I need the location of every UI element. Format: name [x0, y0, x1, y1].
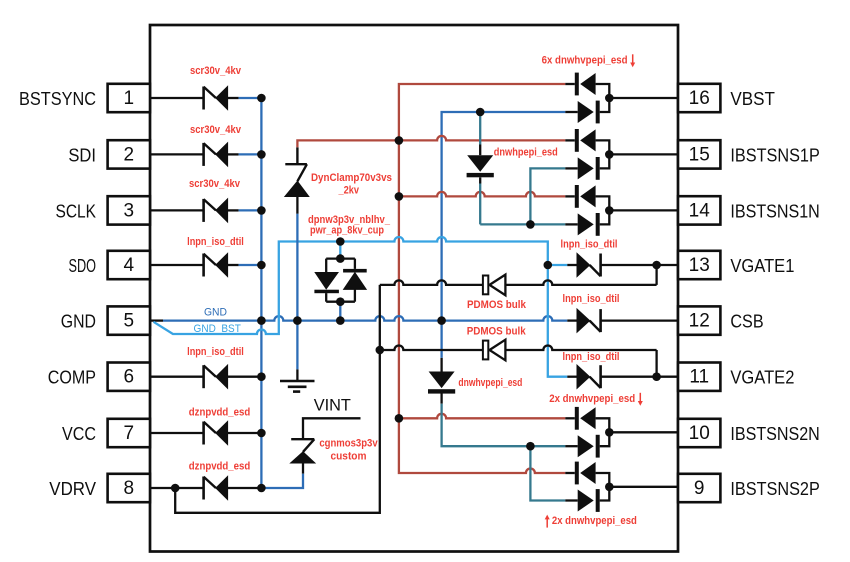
svg-text:VDRV: VDRV: [49, 478, 96, 499]
pin 14 box: [678, 196, 720, 224]
wire diode 4 to bus: [228, 264, 239, 266]
svg-text:scr30v_4kv: scr30v_4kv: [189, 178, 241, 190]
svg-text:8: 8: [124, 478, 135, 499]
wire diode 6 to bus: [228, 376, 262, 378]
wire diode 2 to bus: [228, 153, 239, 155]
svg-text:lnpn_iso_dtil: lnpn_iso_dtil: [561, 239, 618, 251]
wire teal dnwhvpepi_esd lower net: [440, 358, 442, 372]
diode down 2x dnwhvpepi_esd pair IBSTSNS2N: [578, 435, 600, 458]
pin 3 box: [108, 196, 150, 224]
svg-text:PDMOS bulk: PDMOS bulk: [467, 325, 527, 337]
svg-text:custom: custom: [331, 451, 367, 463]
diode pair dpnw3p3v_nblhv_pwr_ap_8kv_cup: [314, 259, 366, 302]
wire pin 6 to diode: [150, 376, 204, 378]
pin 11 box: [678, 363, 720, 391]
junction dots: [257, 94, 266, 103]
svg-text:_2kv: _2kv: [338, 185, 360, 197]
ground symbol: [280, 381, 315, 392]
wire GND from pin 5 black stub: [150, 319, 163, 321]
lead black wires 6x dnwhvpepi_esd pair IBSTSNS1N: [565, 195, 575, 197]
svg-text:14: 14: [689, 200, 711, 221]
svg-text:9: 9: [694, 478, 705, 499]
svg-text:GND_BST: GND_BST: [194, 323, 241, 335]
svg-text:3: 3: [124, 200, 135, 221]
svg-text:10: 10: [689, 423, 710, 444]
wire black PDMOS bulk row lower: [380, 346, 483, 351]
wire diode 7 to bus: [228, 432, 262, 434]
svg-text:dznpvdd_esd: dznpvdd_esd: [189, 460, 251, 472]
pin 12 box: [678, 306, 720, 334]
wire pin 3 to diode: [150, 209, 204, 211]
svg-text:13: 13: [689, 255, 710, 276]
wire VINT net label stub: [303, 418, 361, 439]
diode dnwhvpepi_esd: [428, 372, 455, 394]
svg-text:DynClamp70v3vs: DynClamp70v3vs: [311, 172, 392, 184]
svg-text:GND: GND: [61, 311, 96, 332]
svg-text:CSB: CSB: [730, 311, 763, 332]
arrow down 6x dnwhvpepi_esd: [632, 54, 634, 66]
wire red ESD rail vertical with top and bottom branches: [399, 84, 565, 473]
svg-text:6: 6: [124, 367, 135, 388]
svg-text:VCC: VCC: [62, 423, 96, 444]
svg-text:pwr_ap_8kv_cup: pwr_ap_8kv_cup: [310, 225, 384, 237]
wire black DynClamp top stem: [296, 147, 298, 164]
svg-text:4: 4: [124, 255, 135, 276]
wire black CSB diode lead-in: [567, 319, 577, 321]
diode down 2x dnwhvpepi_esd pair IBSTSNS2P: [578, 489, 600, 512]
wire black VDRV bulk net loop: [175, 285, 380, 513]
wire black PDMOS bulk row upper: [380, 280, 483, 285]
svg-text:lnpn_iso_dtil: lnpn_iso_dtil: [563, 293, 620, 305]
diode down 6x dnwhvpepi_esd pair IBSTSNS1N: [578, 213, 600, 236]
svg-text:IBSTSNS2P: IBSTSNS2P: [730, 478, 819, 499]
diode up 6x dnwhvpepi_esd pair VBST: [575, 73, 596, 96]
wire DynClamp bottom stem to GND and ground symbol: [296, 197, 298, 214]
svg-text:IBSTSNS2N: IBSTSNS2N: [730, 423, 819, 444]
clamp DynClamp70v3vs_2kv: [285, 164, 309, 196]
wire teal dnwhpepi_esd upper net: [479, 112, 481, 145]
svg-text:6x dnwhvpepi_esd: 6x dnwhvpepi_esd: [542, 55, 628, 67]
diode PDMOS bulk lower: [483, 340, 506, 361]
wire diode 8 to bus: [228, 487, 262, 489]
svg-text:2: 2: [124, 144, 135, 165]
svg-text:12: 12: [689, 311, 710, 332]
lead black wires 2x dnwhvpepi_esd pair IBSTSNS2P: [565, 472, 575, 474]
svg-text:SCLK: SCLK: [56, 200, 97, 221]
diode PDMOS bulk upper: [483, 275, 506, 296]
svg-text:VGATE2: VGATE2: [730, 367, 794, 388]
wire blue GND bus vertical left: [260, 98, 262, 488]
lead black wires 6x dnwhvpepi_esd pair VBST: [565, 83, 575, 85]
diode dznpvdd_esd pin 7: [204, 421, 228, 444]
pin 9 box: [678, 474, 720, 502]
diode up 6x dnwhvpepi_esd pair IBSTSNS1N: [575, 185, 596, 208]
wire cgnmos bottom to VDRV row: [302, 463, 304, 474]
pin 1 box: [108, 84, 150, 112]
diode down 6x dnwhvpepi_esd pair VBST: [578, 101, 600, 124]
wire pin 7 to diode: [150, 432, 204, 434]
svg-text:2x dnwhvpepi_esd: 2x dnwhvpepi_esd: [552, 515, 637, 527]
svg-text:SDO: SDO: [69, 255, 97, 276]
svg-text:2x dnwhvpepi_esd: 2x dnwhvpepi_esd: [549, 393, 635, 405]
diode scr30v_4kv pin 1: [204, 86, 228, 109]
svg-text:scr30v_4kv: scr30v_4kv: [190, 124, 242, 136]
wire light blue stub to dpnw cell top: [339, 242, 341, 259]
svg-text:PDMOS bulk: PDMOS bulk: [467, 299, 527, 311]
wire red branch to 2x stack upper diode d7: [399, 414, 565, 419]
diode up 2x dnwhvpepi_esd pair IBSTSNS2P: [575, 462, 596, 485]
diode scr30v_4kv pin 2: [204, 143, 228, 166]
arrow down 2x dnwhvpepi_esd upper: [639, 393, 641, 405]
wire pin 8 to diode: [150, 487, 204, 489]
svg-text:15: 15: [689, 144, 710, 165]
pin 7 box: [108, 419, 150, 447]
diode scr30v_4kv pin 3: [204, 199, 228, 222]
svg-text:scr30v_4kv: scr30v_4kv: [190, 65, 242, 77]
diode lnpn_iso_dtil VGATE2: [577, 365, 601, 388]
svg-text:7: 7: [124, 423, 135, 444]
wire diode 1 to bus: [228, 97, 239, 99]
svg-text:lnpn_iso_dtil: lnpn_iso_dtil: [187, 346, 244, 358]
svg-text:IBSTSNS1P: IBSTSNS1P: [730, 144, 819, 165]
wire pin 4 to diode: [150, 264, 204, 266]
wire GND blue horizontal to CSB diode: [163, 316, 567, 321]
lead black wires 2x dnwhvpepi_esd pair IBSTSNS2N: [565, 417, 575, 419]
svg-text:1: 1: [124, 88, 135, 109]
svg-text:cgnmos3p3v: cgnmos3p3v: [319, 438, 378, 450]
svg-text:dznpvdd_esd: dznpvdd_esd: [189, 406, 251, 418]
diode lnpn_iso_dtil CSB: [577, 309, 601, 332]
pin 13 box: [678, 251, 720, 279]
svg-text:GND: GND: [204, 307, 227, 319]
svg-text:11: 11: [689, 367, 709, 388]
svg-text:BSTSYNC: BSTSYNC: [19, 88, 96, 109]
diode dnwhpepi_esd: [467, 155, 494, 177]
diode dznpvdd_esd pin 8: [204, 476, 228, 499]
svg-text:lnpn_iso_dtil: lnpn_iso_dtil: [563, 351, 620, 363]
svg-text:IBSTSNS1N: IBSTSNS1N: [730, 200, 819, 221]
wire black VGATE2 diode lead-in: [567, 376, 577, 378]
pin 15 box: [678, 140, 720, 168]
svg-text:5: 5: [124, 311, 135, 332]
pin 6 box: [108, 363, 150, 391]
wire black PDMOS lower to VGATE2 node: [655, 350, 657, 377]
svg-text:SDI: SDI: [68, 144, 96, 165]
svg-text:16: 16: [689, 88, 710, 109]
wire dpnw cell bottom stub to GND: [339, 302, 341, 321]
pin 5 box: [108, 306, 150, 334]
wire black VGATE1 diode lead-in: [567, 264, 577, 266]
svg-text:lnpn_iso_dtil: lnpn_iso_dtil: [187, 236, 244, 248]
wire pin 2 to diode: [150, 153, 204, 155]
wire GND_BST light blue net: [154, 237, 568, 377]
diode lnpn_iso_dtil VGATE1: [577, 253, 601, 276]
wire red branch to diode row 5 of 6x stack: [399, 192, 565, 197]
wire pin 1 to diode: [150, 97, 204, 99]
svg-text:VBST: VBST: [730, 88, 775, 109]
wire diode 3 to bus: [228, 209, 239, 211]
svg-text:dnwhpepi_esd: dnwhpepi_esd: [494, 146, 558, 158]
diode lnpn_iso_dtil pin 4: [204, 253, 228, 276]
wire red DynClamp to ESD rail and diode row 3 of 6x stack: [297, 136, 565, 147]
lead black wires 6x dnwhvpepi_esd pair IBSTSNS1P: [565, 139, 575, 141]
arrow up 2x dnwhvpepi_esd lower: [546, 516, 548, 528]
clamp cgnmos3p3v custom: [291, 439, 315, 463]
IC boundary box: [150, 25, 678, 552]
pin 16 box: [678, 84, 720, 112]
svg-text:VINT: VINT: [314, 397, 351, 415]
pin 2 box: [108, 140, 150, 168]
pin 4 box: [108, 251, 150, 279]
wire blue vertical from VBST pair to GND and dnwhvpepi_esd: [442, 112, 566, 358]
diode up 6x dnwhvpepi_esd pair IBSTSNS1P: [575, 129, 596, 152]
svg-text:COMP: COMP: [48, 367, 96, 388]
diode up 2x dnwhvpepi_esd pair IBSTSNS2N: [575, 407, 596, 430]
diode lnpn_iso_dtil pin 6: [204, 365, 228, 388]
wire black PDMOS upper to VGATE1 node: [655, 265, 657, 285]
diode down 6x dnwhvpepi_esd pair IBSTSNS1P: [578, 157, 600, 180]
svg-text:dnwhvpepi_esd: dnwhvpepi_esd: [458, 377, 522, 389]
wire light blue VGATE1 diode lead: [548, 264, 568, 266]
svg-text:VGATE1: VGATE1: [730, 255, 794, 276]
pin 10 box: [678, 419, 720, 447]
pin 8 box: [108, 474, 150, 502]
